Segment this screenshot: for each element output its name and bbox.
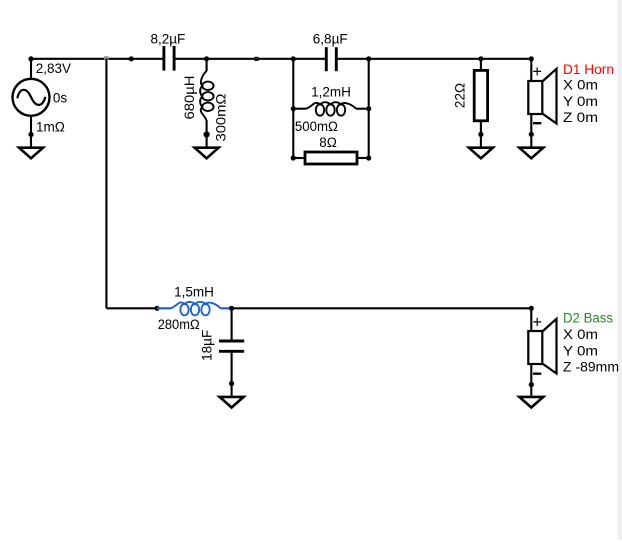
scrollbar strip right edge bbox=[618, 0, 622, 540]
svg-text:+: + bbox=[532, 313, 542, 331]
voltage source V1 (2,83V) bbox=[13, 59, 50, 137]
wire right bar of parallel block bbox=[368, 59, 370, 158]
node junction top of R2 bbox=[478, 56, 483, 61]
node junction top of D1 bbox=[529, 56, 534, 61]
inductor L1 680uH / 300mOhm bbox=[200, 59, 214, 137]
svg-text:8,2µF: 8,2µF bbox=[151, 31, 186, 46]
node junction top of D2 bbox=[529, 306, 534, 311]
wire left bar of parallel block bbox=[292, 59, 294, 158]
node junction left of L3 bbox=[154, 306, 159, 311]
svg-text:D1 Horn: D1 Horn bbox=[563, 62, 614, 77]
node junction top of L1 bbox=[204, 56, 209, 61]
svg-text:680µH: 680µH bbox=[182, 76, 197, 120]
wire top rail from source to C1 bbox=[31, 58, 163, 60]
svg-text:22Ω: 22Ω bbox=[453, 83, 468, 108]
capacitor C3 18uF bbox=[219, 308, 244, 386]
ground below D2 bbox=[519, 385, 543, 408]
ground below C3 bbox=[220, 384, 244, 408]
wire bottom rail left bbox=[106, 307, 157, 309]
ground below source bbox=[19, 135, 43, 159]
svg-text:6,8µF: 6,8µF bbox=[313, 31, 348, 46]
svg-text:2,83V: 2,83V bbox=[36, 61, 71, 76]
node junction left of C1 bbox=[129, 56, 134, 61]
resistor R2 22R bbox=[474, 59, 487, 137]
ground below L1 bbox=[195, 135, 219, 159]
wire top rail from parallel block to 22R and D1 bbox=[368, 58, 531, 60]
svg-text:18µF: 18µF bbox=[200, 330, 215, 361]
node junctions of parallel block bbox=[291, 56, 296, 61]
svg-text:+: + bbox=[532, 63, 542, 81]
minus terminal label D2 bbox=[533, 373, 541, 375]
svg-text:Y 0m: Y 0m bbox=[563, 343, 598, 358]
node junction at source top bbox=[28, 56, 33, 61]
svg-text:Y 0m: Y 0m bbox=[563, 94, 598, 109]
node junction right of L3 bbox=[229, 306, 234, 311]
svg-text:8Ω: 8Ω bbox=[319, 135, 337, 150]
inductor L3 1,5mH / 280mOhm (blue) bbox=[157, 302, 232, 316]
capacitor C2 6,8uF bbox=[293, 47, 368, 71]
svg-text:500mΩ: 500mΩ bbox=[295, 119, 338, 134]
inductor L2 1,2mH / 500mOhm bbox=[293, 102, 368, 116]
svg-text:D2 Bass: D2 Bass bbox=[563, 311, 613, 326]
svg-text:X 0m: X 0m bbox=[563, 327, 598, 342]
svg-text:1,2mH: 1,2mH bbox=[311, 84, 351, 99]
speaker D1 Horn bbox=[528, 59, 556, 137]
svg-text:1mΩ: 1mΩ bbox=[36, 119, 65, 134]
svg-text:X 0m: X 0m bbox=[563, 77, 598, 92]
minus terminal label D1 bbox=[533, 122, 541, 124]
wire vertical branch to woofer section bbox=[105, 59, 107, 308]
node wire-end marker bbox=[254, 57, 258, 61]
svg-text:1,5mH: 1,5mH bbox=[174, 284, 214, 299]
svg-text:0s: 0s bbox=[53, 91, 68, 106]
wire bottom rail right bbox=[232, 307, 532, 309]
ground below R2 bbox=[469, 134, 493, 158]
svg-text:300mΩ: 300mΩ bbox=[214, 94, 229, 142]
wire top rail from C1 to parallel block bbox=[175, 58, 294, 60]
svg-text:280mΩ: 280mΩ bbox=[158, 317, 200, 332]
speaker D2 Bass bbox=[528, 308, 556, 387]
node tee marker at bottom-branch tap bbox=[104, 56, 108, 60]
svg-text:Z 0m: Z 0m bbox=[563, 110, 598, 125]
resistor R1 8R bbox=[293, 152, 368, 164]
svg-text:Z -89mm: Z -89mm bbox=[563, 360, 619, 375]
ground below D1 bbox=[519, 134, 543, 158]
capacitor C1 8,2uF bbox=[164, 46, 174, 71]
